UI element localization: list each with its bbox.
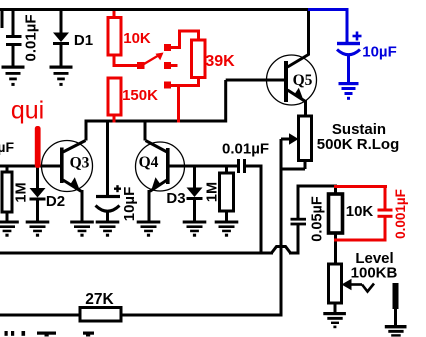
- svg-text:D3: D3: [166, 190, 185, 207]
- svg-text:1M: 1M: [205, 182, 221, 202]
- svg-text:qui: qui: [11, 97, 44, 125]
- svg-text:500K R.Log: 500K R.Log: [317, 136, 400, 153]
- svg-text:10µF: 10µF: [362, 44, 397, 61]
- svg-text:Q5: Q5: [293, 72, 313, 89]
- svg-text:39K: 39K: [205, 53, 235, 70]
- svg-text:27K: 27K: [85, 291, 114, 308]
- svg-text:10µF: 10µF: [121, 187, 138, 222]
- svg-text:10K: 10K: [346, 203, 374, 220]
- svg-text:100KB: 100KB: [351, 265, 398, 282]
- svg-text:0.05µF: 0.05µF: [310, 196, 326, 242]
- svg-text:0.01µF: 0.01µF: [222, 141, 269, 158]
- svg-text:10K: 10K: [123, 30, 151, 47]
- svg-text:Q4: Q4: [139, 154, 159, 171]
- svg-text:Q3: Q3: [70, 155, 90, 172]
- svg-text:D1: D1: [74, 32, 93, 49]
- svg-text:150K: 150K: [122, 87, 158, 104]
- svg-text:µF: µF: [0, 139, 14, 155]
- svg-text:0.01µF: 0.01µF: [23, 15, 40, 62]
- svg-text:D2: D2: [46, 193, 65, 210]
- svg-text:0.001µF: 0.001µF: [393, 189, 408, 239]
- svg-text:1M: 1M: [14, 182, 30, 202]
